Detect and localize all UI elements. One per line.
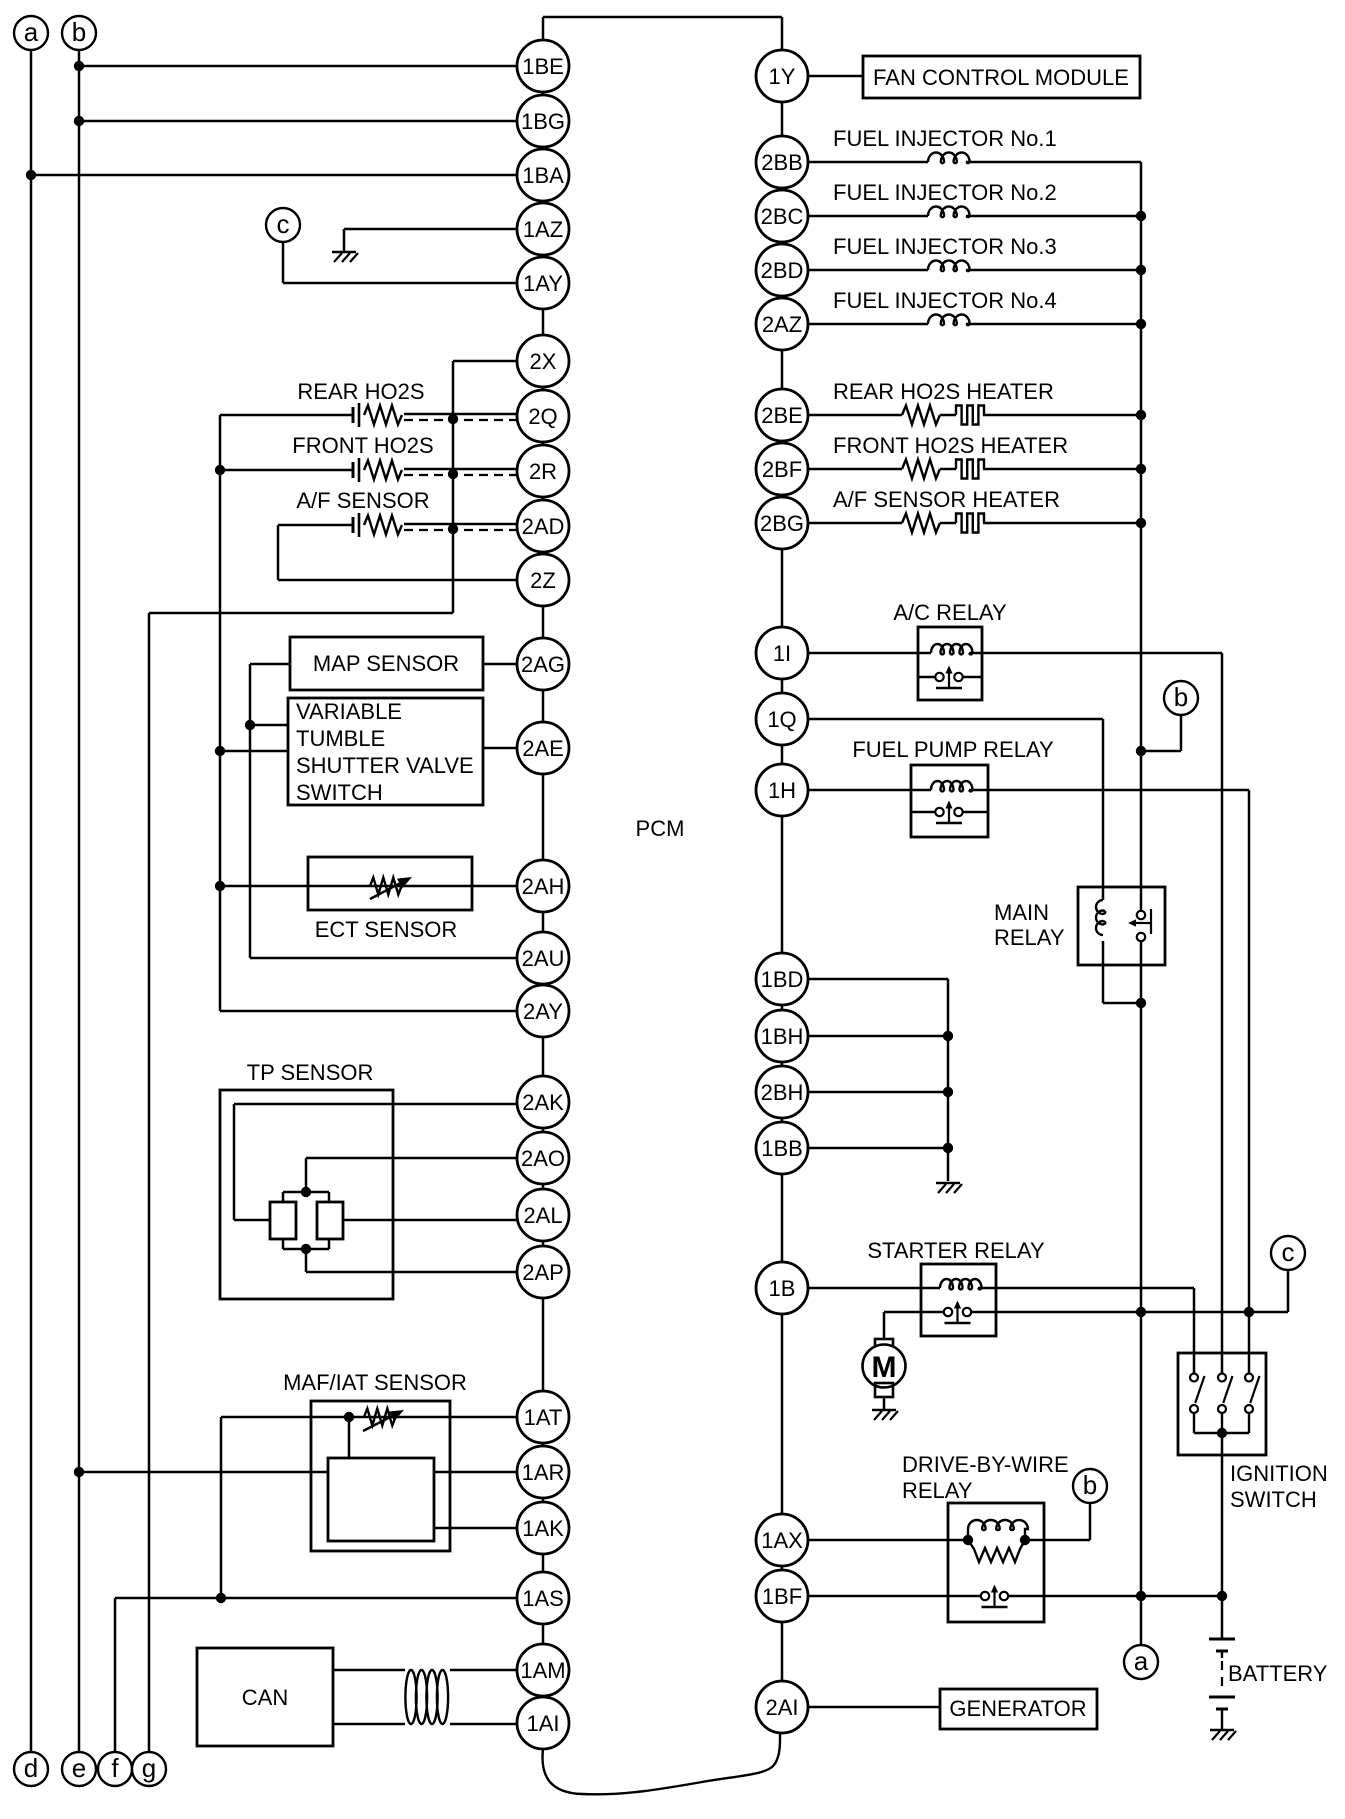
label STARTER RELAY	[867, 1238, 1045, 1263]
pin 1H	[756, 764, 808, 816]
arrow ECT thermistor	[370, 877, 412, 899]
junction net-b/1AR	[74, 1467, 84, 1477]
pin 1AM	[517, 1644, 569, 1696]
box TP SENSOR	[220, 1090, 393, 1299]
junction net-a/1BA	[26, 170, 36, 180]
label FRONT HO2S HEATER	[833, 433, 1068, 458]
svg-text:g: g	[142, 1753, 156, 1783]
wire main relay coil return	[1103, 941, 1141, 1003]
wire A/C relay to ignition switch	[969, 653, 1222, 1373]
node b (main bus tap)	[1164, 681, 1198, 715]
coil fuel pump relay	[931, 781, 973, 791]
wire IAT node to module	[348, 1417, 351, 1458]
svg-text:2AY: 2AY	[523, 999, 563, 1024]
thermistor ECT	[370, 878, 402, 895]
label FUEL INJECTOR No.4	[833, 288, 1057, 313]
svg-text:2Q: 2Q	[528, 404, 557, 429]
svg-text:2AU: 2AU	[522, 946, 565, 971]
battery cell A/F sensor	[353, 513, 359, 537]
svg-text:1BE: 1BE	[522, 54, 564, 79]
wire motor to ground	[883, 1397, 886, 1410]
pin 1Y	[756, 50, 808, 102]
node d (bottom)	[14, 1752, 48, 1786]
wire REAR HO2S HEATER mid	[940, 414, 956, 417]
junction DBW coil right	[1020, 1535, 1030, 1545]
pin 2R	[517, 445, 569, 497]
wire main relay power bus upper	[1140, 162, 1143, 911]
svg-text:1BF: 1BF	[762, 1584, 802, 1609]
pin 2AH	[517, 860, 569, 912]
svg-text:1Q: 1Q	[767, 707, 796, 732]
wire left sensor bus	[219, 415, 222, 1011]
junction left bus/FRONT HO2S	[215, 465, 225, 475]
box GENERATOR	[940, 1689, 1097, 1729]
wire injector2 to bus	[966, 215, 1141, 218]
wire 1AY to node c	[283, 242, 517, 283]
wire 1BH	[808, 1035, 948, 1038]
contact fuel pump relay	[911, 801, 988, 824]
resistor DBW relay	[968, 1540, 1025, 1562]
pin 2AK	[517, 1076, 569, 1128]
wire 1B to starter relay coil	[808, 1287, 940, 1290]
svg-text:2X: 2X	[530, 349, 557, 374]
node a (top)	[14, 16, 48, 50]
label PCM	[636, 816, 685, 841]
pin 2Z	[517, 554, 569, 606]
pin 2BC	[756, 190, 808, 242]
svg-text:FUEL INJECTOR No.3: FUEL INJECTOR No.3	[833, 234, 1057, 259]
wire A/F sensor output	[404, 523, 517, 526]
wire VTSS upper left	[250, 724, 288, 727]
ground for motor	[872, 1410, 898, 1420]
junction MAF-vertical/1AS	[216, 1593, 226, 1603]
svg-text:TUMBLE: TUMBLE	[296, 726, 385, 751]
label FUEL INJECTOR No.3	[833, 234, 1057, 259]
svg-text:1BD: 1BD	[761, 967, 804, 992]
node c (ignition feed)	[1271, 1236, 1305, 1270]
node b (top)	[62, 16, 96, 50]
box CAN	[197, 1648, 333, 1746]
wire 2AK into TP	[234, 1104, 517, 1220]
resistor FRONT HO2S HEATER	[902, 460, 940, 479]
wire PCM left connector chain	[542, 17, 545, 1749]
svg-text:1AS: 1AS	[522, 1586, 564, 1611]
svg-text:a: a	[1134, 1646, 1149, 1676]
wire 2B-injector1 left	[808, 161, 928, 164]
junction bus/injector2	[1136, 211, 1146, 221]
junction shield bus/2Q	[448, 414, 458, 424]
pin 1AY	[517, 257, 569, 309]
node c (top)	[266, 208, 300, 242]
box FUEL PUMP RELAY	[911, 765, 988, 837]
wire 2AI to generator	[808, 1706, 940, 1709]
svg-text:2BF: 2BF	[762, 457, 802, 482]
svg-text:FRONT HO2S: FRONT HO2S	[292, 433, 433, 458]
svg-text:RELAY: RELAY	[994, 925, 1065, 950]
coil main relay	[1096, 900, 1105, 935]
label FUEL INJECTOR No.2	[833, 180, 1057, 205]
junction net-b/1BE	[74, 61, 84, 71]
wire 1I to A/C relay coil	[808, 652, 931, 655]
pin 2AY	[517, 985, 569, 1037]
junction bus/REAR HO2S HEATER	[1136, 410, 1146, 420]
wire 2AU left	[250, 957, 517, 960]
heating element A/F SENSOR HEATER	[956, 514, 984, 533]
svg-text:FUEL PUMP RELAY: FUEL PUMP RELAY	[852, 737, 1054, 762]
box MAIN RELAY	[1078, 887, 1165, 965]
svg-text:b: b	[1083, 1470, 1097, 1500]
svg-text:IGNITION: IGNITION	[1230, 1461, 1328, 1486]
junction bus/injector4	[1136, 319, 1146, 329]
svg-text:2AP: 2AP	[522, 1260, 564, 1285]
svg-text:2BC: 2BC	[761, 204, 804, 229]
twisted pair CAN	[405, 1670, 448, 1724]
junction sensor-bus/ECT	[215, 881, 225, 891]
node f (bottom)	[98, 1752, 132, 1786]
svg-text:1AM: 1AM	[520, 1658, 565, 1683]
pin 2BE	[756, 389, 808, 441]
svg-text:1BH: 1BH	[761, 1024, 804, 1049]
wire net-a vertical (a to d)	[30, 50, 33, 1752]
wire 2AO to TP top node	[306, 1158, 517, 1192]
box STARTER RELAY	[921, 1264, 996, 1336]
box ECT SENSOR	[308, 857, 472, 910]
potentiometer TP right element	[317, 1202, 343, 1239]
heating element REAR HO2S HEATER	[956, 406, 984, 425]
wire shield FRONT HO2S (dashed)	[404, 474, 519, 476]
svg-text:1AI: 1AI	[526, 1711, 559, 1736]
wire 2B-injector3 left	[808, 269, 928, 272]
svg-text:BATTERY: BATTERY	[1228, 1661, 1328, 1686]
junction bus/FRONT HO2S HEATER	[1136, 464, 1146, 474]
contact DBW relay	[981, 1585, 1008, 1608]
junction bus/starter contact	[1136, 1307, 1146, 1317]
label FUEL INJECTOR No.1	[833, 126, 1057, 151]
wire REAR HO2S left	[220, 414, 353, 417]
resistor A/F sensor	[364, 516, 402, 535]
label A/F SENSOR HEATER	[833, 487, 1060, 512]
junction gnd-bus/2BH	[943, 1087, 953, 1097]
battery plates	[1209, 1639, 1235, 1730]
wire net-g vertical	[148, 613, 151, 1752]
wire A/F SENSOR HEATER mid	[940, 522, 956, 525]
wire 1AX to DBW relay	[808, 1539, 968, 1542]
label BATTERY	[1228, 1661, 1328, 1686]
contact A/C relay	[918, 666, 982, 689]
svg-text:1AR: 1AR	[522, 1460, 565, 1485]
inductor fuel injector No.2	[928, 207, 970, 218]
svg-text:M: M	[872, 1351, 897, 1384]
coil DBW relay	[968, 1520, 1028, 1540]
svg-text:1H: 1H	[768, 778, 796, 803]
wire DBW contact to battery	[1008, 1595, 1222, 1598]
wire MAP/2AU bus	[249, 664, 252, 958]
potentiometer TP left element	[270, 1202, 296, 1239]
wire FRONT HO2S HEATER mid	[940, 468, 956, 471]
junction DBW coil left	[963, 1535, 973, 1545]
svg-text:REAR HO2S: REAR HO2S	[297, 379, 424, 404]
resistor REAR HO2S HEATER	[902, 406, 940, 425]
box DRIVE-BY-WIRE RELAY	[948, 1503, 1044, 1622]
wire 1AI to 2AI (flex)	[542, 1734, 780, 1794]
wire REAR HO2S HEATER left	[808, 414, 902, 417]
pin 1BD	[756, 953, 808, 1005]
wire DBW to node-b	[1025, 1503, 1090, 1540]
junction MAP-bus/VTSS	[245, 720, 255, 730]
svg-text:2BB: 2BB	[761, 150, 803, 175]
svg-text:1BA: 1BA	[522, 163, 564, 188]
svg-text:SWITCH: SWITCH	[296, 780, 383, 805]
svg-text:2AL: 2AL	[523, 1203, 562, 1228]
svg-text:c: c	[1282, 1237, 1295, 1267]
box MAF/IAT outer	[311, 1401, 450, 1551]
ground for battery	[1210, 1730, 1236, 1740]
pin 1BB	[756, 1122, 808, 1174]
wire 1BE to net-b	[79, 65, 517, 68]
wire VTSS to 2AE	[483, 747, 517, 750]
svg-text:MAP SENSOR: MAP SENSOR	[313, 651, 459, 676]
wire PCM right connector chain	[781, 17, 784, 1733]
svg-text:b: b	[1174, 682, 1188, 712]
inductor fuel injector No.4	[928, 315, 970, 326]
ground for 1AZ	[332, 252, 358, 262]
pin 2AZ	[756, 298, 808, 350]
contact main relay	[1128, 909, 1151, 941]
wire FRONT HO2S left	[220, 469, 353, 472]
pin 2AE	[517, 722, 569, 774]
wire 1H to fuel pump relay coil	[808, 789, 931, 792]
wire A/F SENSOR HEATER to bus	[983, 522, 1141, 525]
wire TP bottom node	[283, 1239, 329, 1249]
label REAR HO2S	[297, 379, 424, 404]
junction shield bus/2R	[448, 469, 458, 479]
pin 2AD	[517, 500, 569, 552]
svg-text:A/F SENSOR HEATER: A/F SENSOR HEATER	[833, 487, 1060, 512]
svg-text:f: f	[111, 1753, 119, 1783]
svg-text:2AZ: 2AZ	[762, 312, 802, 337]
wire MAP left	[250, 663, 290, 666]
svg-text:2AE: 2AE	[522, 736, 564, 761]
wire bus to node-a	[1140, 1596, 1143, 1645]
svg-text:DRIVE-BY-WIRE: DRIVE-BY-WIRE	[902, 1452, 1069, 1477]
junction battery/1BF	[1217, 1591, 1227, 1601]
pin 2AU	[517, 932, 569, 984]
svg-text:FUEL INJECTOR No.2: FUEL INJECTOR No.2	[833, 180, 1057, 205]
wire CAN high	[333, 1669, 517, 1672]
resistor A/F SENSOR HEATER	[902, 514, 940, 533]
battery cell REAR HO2S	[353, 403, 359, 427]
svg-text:ECT SENSOR: ECT SENSOR	[315, 917, 458, 942]
pin 2AL	[517, 1189, 569, 1241]
wire 1AZ to ground	[344, 229, 517, 252]
pin 1AZ	[517, 203, 569, 255]
svg-text:STARTER RELAY: STARTER RELAY	[867, 1238, 1045, 1263]
node a (battery bus)	[1124, 1645, 1158, 1679]
pin 2Q	[517, 390, 569, 442]
pin 2BG	[756, 497, 808, 549]
wire fuel pump relay to ignition switch	[969, 790, 1249, 1373]
label FUEL PUMP RELAY	[852, 737, 1054, 762]
wire shield REAR HO2S (dashed)	[404, 419, 519, 421]
wire FRONT HO2S HEATER left	[808, 468, 902, 471]
box FAN CONTROL MODULE	[863, 56, 1140, 98]
wire net-f vertical	[114, 1598, 117, 1752]
pin 2AO	[517, 1132, 569, 1184]
svg-text:d: d	[24, 1753, 38, 1783]
pin 1BG	[517, 95, 569, 147]
pin 2AI	[756, 1681, 808, 1733]
junction gnd-bus/1BH	[943, 1031, 953, 1041]
svg-text:1AZ: 1AZ	[523, 217, 563, 242]
label GENERATOR	[949, 1696, 1086, 1721]
pin 1BE	[517, 40, 569, 92]
label CAN	[242, 1685, 288, 1710]
junction ignition switch common	[1217, 1428, 1227, 1438]
svg-text:2AK: 2AK	[522, 1090, 564, 1115]
wire injector3 to bus	[966, 269, 1141, 272]
wire 2B-injector4 left	[808, 323, 928, 326]
svg-text:e: e	[72, 1753, 86, 1783]
box MAF/IAT inner	[328, 1458, 434, 1541]
pin 1BH	[756, 1010, 808, 1062]
wire node-c to ign-sw feed	[1287, 1270, 1290, 1312]
junction bus/main relay coil	[1136, 998, 1146, 1008]
wire main relay power bus lower	[1140, 941, 1143, 1596]
box VTSS	[288, 698, 483, 805]
wire 1AR row	[79, 1471, 517, 1474]
wire VTSS lower left	[220, 750, 288, 753]
inductor fuel injector No.1	[928, 153, 970, 164]
svg-text:1AT: 1AT	[524, 1405, 563, 1430]
svg-text:FUEL INJECTOR No.1: FUEL INJECTOR No.1	[833, 126, 1057, 151]
motor M	[863, 1345, 906, 1388]
svg-text:REAR HO2S HEATER: REAR HO2S HEATER	[833, 379, 1054, 404]
contact starter relay	[944, 1301, 971, 1324]
label DRIVE-BY-WIRE RELAY	[902, 1452, 1069, 1503]
junction gnd-bus/1BB	[943, 1143, 953, 1153]
pin 2AG	[517, 638, 569, 690]
svg-text:MAIN: MAIN	[994, 900, 1049, 925]
svg-text:VARIABLE: VARIABLE	[296, 699, 402, 724]
ground for 1BD/1BH/2BH/1BB	[936, 1183, 962, 1193]
pin 1I	[756, 627, 808, 679]
svg-text:FAN CONTROL MODULE: FAN CONTROL MODULE	[873, 65, 1129, 90]
battery cell FRONT HO2S	[353, 458, 359, 482]
wire 1BF row	[808, 1595, 981, 1598]
pin 1AI	[517, 1697, 569, 1749]
wire FRONT HO2S output	[404, 468, 517, 471]
svg-text:2BD: 2BD	[761, 258, 804, 283]
svg-text:b: b	[72, 17, 86, 47]
wire MAF vertical to 1AS	[220, 1417, 223, 1598]
box MAP SENSOR	[290, 637, 483, 690]
pin 1AS	[517, 1572, 569, 1624]
svg-text:1B: 1B	[769, 1276, 796, 1301]
wire injector1 to bus	[966, 161, 1141, 164]
inductor fuel injector No.3	[928, 261, 970, 272]
svg-text:1AY: 1AY	[523, 271, 563, 296]
wire MAP to 2AG	[483, 663, 517, 666]
wire CAN low	[333, 1723, 517, 1726]
wire REAR HO2S HEATER to bus	[983, 414, 1141, 417]
wire 2AL to TP wiper	[343, 1219, 517, 1222]
box IGNITION SWITCH	[1178, 1353, 1266, 1455]
svg-text:a: a	[24, 17, 39, 47]
svg-text:MAF/IAT SENSOR: MAF/IAT SENSOR	[283, 1370, 467, 1395]
label A/F SENSOR	[296, 488, 429, 513]
pin 1AK	[517, 1502, 569, 1554]
wire 1AS row	[115, 1597, 517, 1600]
svg-text:2AI: 2AI	[765, 1695, 798, 1720]
pin 2BF	[756, 443, 808, 495]
junction bus/1BF	[1136, 1591, 1146, 1601]
svg-text:2BH: 2BH	[761, 1080, 804, 1105]
label MAP SENSOR	[313, 651, 459, 676]
svg-text:SWITCH: SWITCH	[1230, 1487, 1317, 1512]
pin 1BF	[756, 1570, 808, 1622]
svg-text:SHUTTER VALVE: SHUTTER VALVE	[296, 753, 474, 778]
wire REAR HO2S output	[404, 413, 517, 416]
box A/C RELAY	[918, 627, 982, 700]
wire top link 1BE to 1Y	[543, 16, 782, 19]
label IGNITION SWITCH	[1230, 1461, 1328, 1512]
label MAIN RELAY	[994, 900, 1065, 950]
svg-text:2AO: 2AO	[521, 1146, 565, 1171]
wire starter contact to motor	[884, 1312, 944, 1339]
svg-text:A/C RELAY: A/C RELAY	[893, 600, 1007, 625]
pin 2X	[517, 335, 569, 387]
svg-text:2BE: 2BE	[761, 403, 803, 428]
pin 1Q	[756, 693, 808, 745]
arrow IAT thermistor	[363, 1410, 404, 1431]
label A/C RELAY	[893, 600, 1007, 625]
wire net-b vertical (b to e)	[78, 50, 81, 1752]
svg-text:FUEL INJECTOR No.4: FUEL INJECTOR No.4	[833, 288, 1057, 313]
thermistor IAT	[364, 1409, 396, 1426]
wire 1BG to net-b	[79, 120, 517, 123]
wire starter relay to ignition switch	[978, 1288, 1194, 1373]
svg-text:2AD: 2AD	[522, 514, 565, 539]
wire 1BB	[808, 1147, 948, 1150]
svg-text:GENERATOR: GENERATOR	[949, 1696, 1086, 1721]
junction starter contact/ign-sw feed	[1244, 1307, 1254, 1317]
wire 2B-injector2 left	[808, 215, 928, 218]
motor M brush bottom	[875, 1383, 893, 1397]
junction bus/node-b	[1136, 746, 1146, 756]
wire 1BD to ground bus	[808, 979, 948, 1181]
wire 1Y to module	[808, 75, 863, 78]
svg-text:1AX: 1AX	[761, 1528, 803, 1553]
label FRONT HO2S	[292, 433, 433, 458]
junction TP bottom node	[301, 1244, 311, 1254]
junction bus/injector3	[1136, 265, 1146, 275]
pin 1BA	[517, 149, 569, 201]
heating element FRONT HO2S HEATER	[956, 460, 984, 479]
junction shield bus/2AD	[448, 524, 458, 534]
wire shield bus to net-g	[149, 612, 453, 615]
resistor REAR HO2S	[364, 406, 402, 425]
coil A/C relay	[931, 644, 973, 654]
wire 1Q to main relay coil	[808, 719, 1103, 900]
svg-text:c: c	[277, 209, 290, 239]
junction sensor-bus/VTSS	[215, 746, 225, 756]
svg-text:FRONT HO2S HEATER: FRONT HO2S HEATER	[833, 433, 1068, 458]
wire 2AY left	[220, 1010, 517, 1013]
pin 2BD	[756, 244, 808, 296]
svg-text:1Y: 1Y	[769, 64, 796, 89]
svg-text:2AH: 2AH	[522, 874, 565, 899]
wire A/F SENSOR HEATER left	[808, 522, 902, 525]
